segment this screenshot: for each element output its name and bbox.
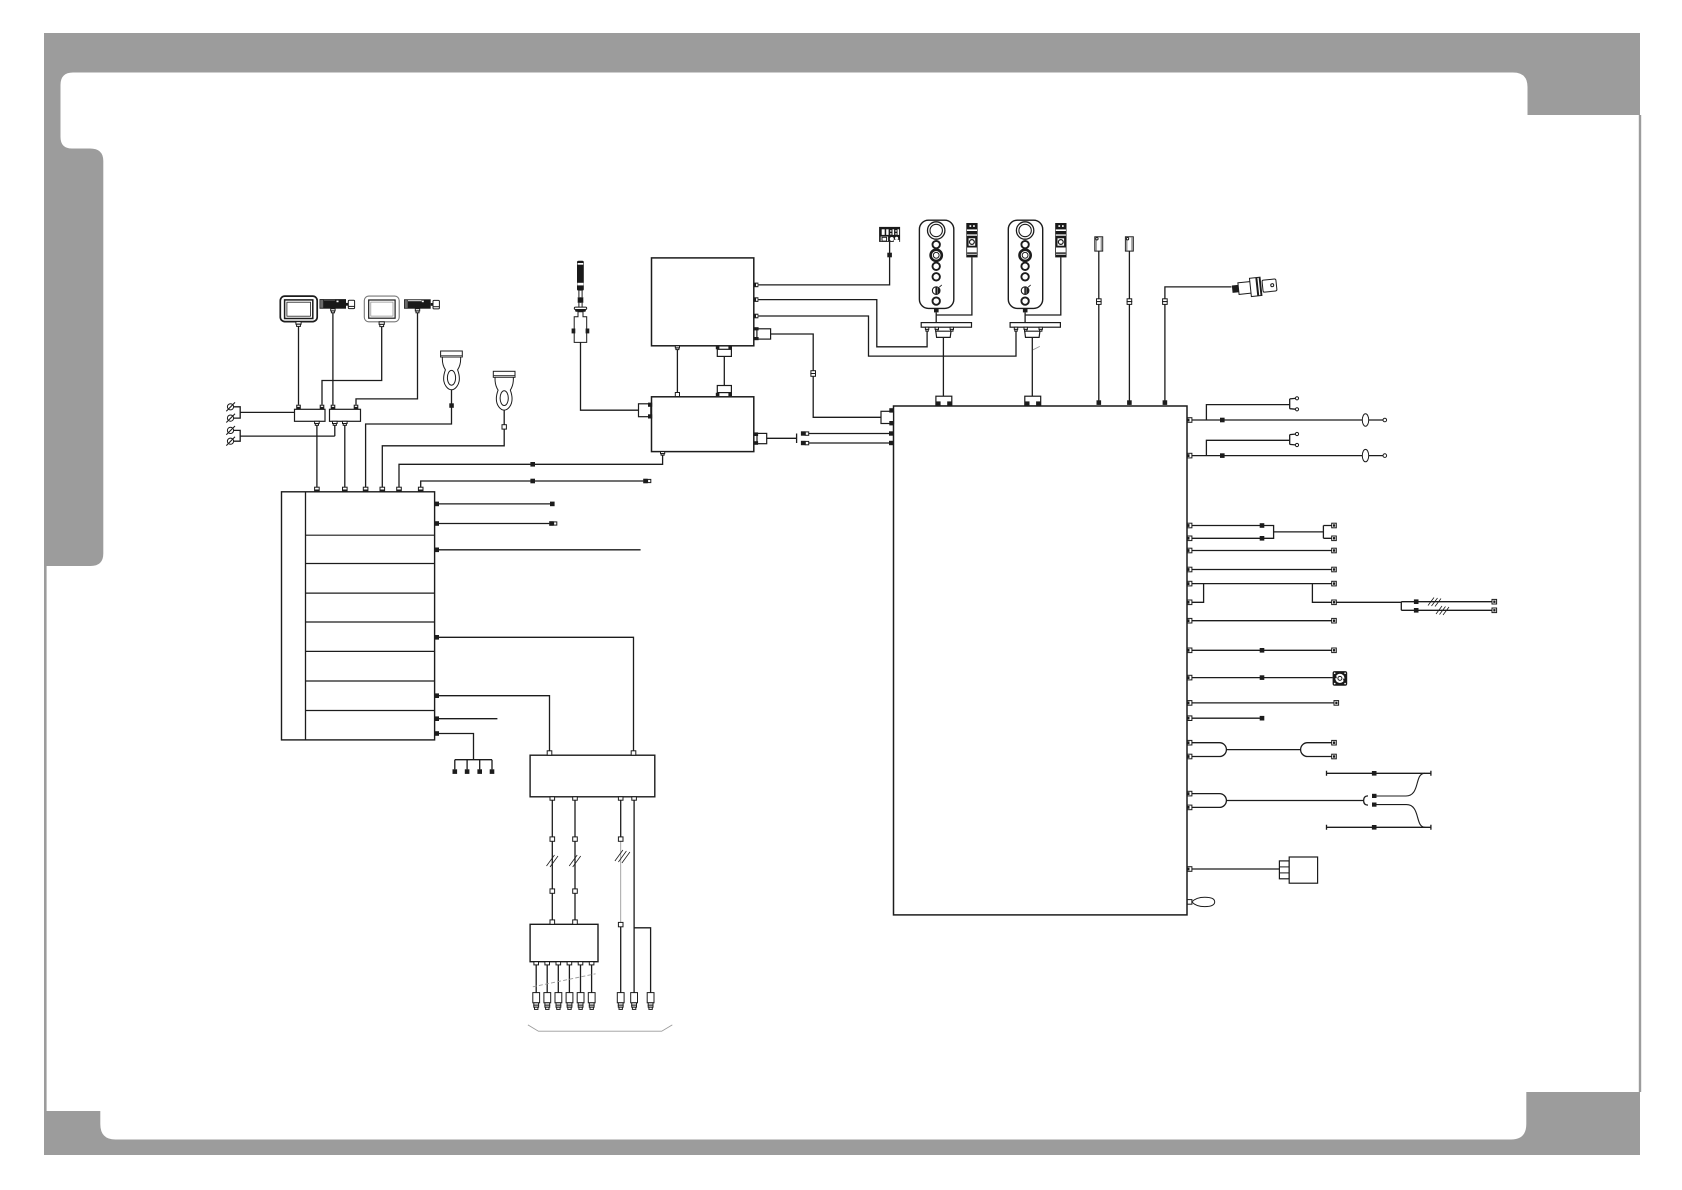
AMP right pin c [435, 548, 439, 553]
board top connector 2 [1025, 396, 1041, 406]
wire plate1 to board connector [942, 337, 944, 396]
connector end k1 [1332, 740, 1337, 745]
wire remote2 down [1025, 257, 1061, 315]
wire terminal pair 2 to P2 box stub [234, 425, 335, 441]
AMP right pin e [435, 693, 439, 698]
wire pin c long lead [439, 549, 641, 551]
wire box C pin2 to speaker plate 1 [758, 300, 927, 347]
wire i [1192, 702, 1334, 704]
RCA plug 1 [533, 993, 540, 1010]
RCA plug 3 [555, 993, 562, 1010]
RCA plug 5 [577, 993, 584, 1010]
AMP block (left tall board) [282, 492, 435, 740]
remote sensor unit 2 [1055, 223, 1066, 257]
box A top stub 1 [547, 751, 552, 755]
speaker wire lower bar [1327, 825, 1431, 830]
board right pin fan [1187, 675, 1192, 680]
microphone 1 [441, 351, 463, 390]
wire box A lead 2 [574, 800, 576, 920]
box C bottom connector [716, 346, 732, 356]
RCA plug 7 [617, 993, 624, 1010]
box A top stub 2 [631, 751, 636, 755]
wire pair c merged and split [1192, 526, 1332, 539]
wire antenna to tuner box left connector [581, 342, 639, 410]
wire twisted pair to rear terminal [1336, 602, 1492, 611]
wire AM lead with ferrite bead [1192, 455, 1383, 457]
antenna terminal A3 [226, 426, 235, 435]
wire box C pin3 to speaker plate 2 [758, 316, 1016, 356]
wire terminal pair 1 to P1 box [234, 407, 295, 418]
board right pin h [1187, 648, 1192, 653]
wire e [1192, 569, 1332, 571]
capsule cable k [1192, 743, 1334, 757]
wire pin g to 4-pin fanout [439, 734, 492, 770]
wire P1 to AMP block [316, 425, 318, 487]
box B top stub 2 [573, 920, 578, 924]
main board left connector [881, 408, 894, 425]
FM branch to 2-prong terminal [1206, 398, 1295, 420]
main board left pin upper [889, 431, 894, 435]
AMP top pin 2 [343, 487, 348, 492]
deck box A [530, 755, 655, 797]
main box C [652, 258, 754, 346]
cable mark [811, 371, 816, 377]
speaker wire upper curve [1377, 773, 1426, 796]
switch component (black) [879, 227, 900, 242]
wires box B to plugs [536, 965, 591, 993]
sensor bar 1 (black) [320, 299, 355, 313]
RCA plug 9 [647, 993, 654, 1010]
box B bottom stubs [534, 962, 594, 965]
speaker column unit 2 [1008, 220, 1042, 312]
FM rod antenna [572, 261, 590, 343]
box C right pin 1 [754, 283, 759, 288]
wire f pair [1192, 584, 1332, 603]
wire mic2 to AMP block [382, 410, 504, 487]
deck box B [530, 924, 598, 961]
antenna terminal A1 [226, 402, 235, 411]
wire pin b [439, 523, 549, 525]
cooling fan [1333, 671, 1348, 686]
plug component 2 [1125, 237, 1133, 251]
connector box P1 [295, 405, 326, 426]
wire pin f short lead [439, 718, 497, 720]
board right pin i [1187, 701, 1192, 706]
AMP right pin f [435, 716, 439, 721]
AMP top pin 1 [315, 487, 320, 492]
junction on wire [530, 479, 535, 484]
wire pin d to deck box A [439, 637, 634, 751]
wire remote1 down [936, 257, 972, 315]
speaker plate 1 [921, 323, 971, 338]
wire P2 to AMP block [344, 425, 346, 487]
display unit 2 [364, 296, 399, 327]
board right pin FM antenna [1187, 418, 1192, 423]
speaker column unit 1 [919, 220, 953, 312]
box C bottom stub [675, 346, 679, 350]
wire plate2 to board connector [1031, 337, 1033, 396]
AMP top pin 4 [380, 487, 385, 492]
wire mic1 to AMP block [366, 390, 452, 488]
board right pin d [1187, 548, 1192, 553]
wire FM lead with ferrite bead [1192, 419, 1383, 421]
wire AMP pin6 long lead [421, 481, 644, 487]
board top connector 1 [936, 396, 952, 406]
wire tower1 to plate1 [935, 312, 937, 322]
display unit 1 (TV icon) [280, 296, 317, 326]
AC power plug [1231, 276, 1277, 299]
box D bottom stub [661, 452, 665, 456]
wire box A lead 4 with branch [634, 800, 651, 992]
box C right pin 2 [754, 297, 759, 302]
main board left pin lower [889, 441, 894, 445]
connector end f2 [1332, 600, 1337, 605]
connector end c1 [1332, 523, 1337, 528]
connector end c2 [1332, 536, 1337, 541]
splitter connector lower [801, 441, 809, 445]
cable hash marks [1428, 598, 1449, 616]
speaker wire lower curve [1377, 805, 1426, 828]
wire d [1192, 550, 1332, 552]
wire j short [1192, 717, 1260, 719]
board right pin n [1187, 867, 1192, 872]
speaker plate 2 [1010, 323, 1060, 338]
wire box A lead 1 [551, 800, 553, 920]
AMP top pin 5 [397, 487, 402, 492]
board right pins m capsule [1187, 791, 1192, 796]
main box D [652, 397, 754, 452]
box D left connector [639, 403, 653, 419]
wire splitter to main board pins [809, 434, 890, 444]
board right pin c2 [1187, 536, 1192, 541]
board right pin AM antenna [1187, 453, 1192, 458]
wire box A lead 3 [620, 800, 622, 841]
RCA plug 6 [588, 993, 595, 1010]
wire bar2 to P2 box [356, 313, 418, 405]
wire plugcomp2 to main board [1128, 251, 1130, 405]
capsule cable m to speaker wires [1192, 794, 1368, 808]
board right pin c1 [1187, 523, 1192, 528]
connector end k2 [1332, 754, 1337, 759]
board right pin f1 [1187, 581, 1192, 586]
box D top connector [716, 386, 732, 397]
wire plugcomp1 to main board [1098, 251, 1100, 405]
board right pins k capsule [1187, 740, 1192, 745]
wire display1 to P1 box [298, 327, 300, 405]
remote sensor unit 1 [966, 223, 977, 257]
wire connector to box D connector [723, 356, 725, 385]
terminal end f1 [1492, 599, 1497, 604]
wire box C stub to box D [676, 350, 678, 393]
wire AMP pin5 to tuner box bottom [399, 455, 663, 487]
RCA plug 2 [544, 993, 551, 1010]
RCA plug 4 [566, 993, 573, 1010]
AM branch to 2-prong terminal [1206, 434, 1295, 456]
antenna terminal A2 [226, 414, 235, 423]
wire AC plug to main board [1165, 287, 1232, 405]
antenna terminal A4 [226, 437, 235, 446]
box C right connector [754, 327, 770, 340]
board right pin f2 [1187, 600, 1192, 605]
board right pin j [1187, 716, 1192, 721]
board right pin g [1187, 618, 1192, 623]
fanout pin squares [453, 769, 495, 774]
wire h [1192, 649, 1332, 651]
box C right pin 3 [754, 314, 759, 319]
wire bar1 to P2 box [332, 313, 334, 405]
box A bottom stubs [550, 797, 636, 800]
wire n to jack block [1192, 868, 1280, 870]
wire tower2 to plate2 [1024, 312, 1026, 322]
AMP top pin 3 [363, 487, 368, 492]
bundle diagonal [533, 974, 596, 987]
jack block component [1279, 857, 1317, 883]
wire to fan [1192, 677, 1333, 679]
sensor bar 2 (black) [404, 299, 439, 313]
connector box P2 [330, 405, 361, 426]
wire g [1192, 620, 1332, 622]
wire display2 to P1 box [322, 327, 382, 405]
board right pin o balloon [1187, 900, 1192, 905]
brace under plugs [528, 1025, 672, 1031]
wire box C pin1 to switch comp [758, 242, 889, 285]
box D top stub [675, 393, 679, 397]
board right pin e [1187, 567, 1192, 572]
lead end connector [643, 479, 651, 484]
terminal end f2 [1492, 608, 1497, 613]
AMP right pin b [435, 521, 439, 526]
box B top stub 1 [550, 920, 555, 924]
AMP right pin d [435, 635, 439, 640]
box D right connector [754, 432, 767, 444]
wire box D connector to splitter [767, 434, 797, 444]
speaker wire upper bar [1327, 771, 1431, 776]
connector end f1 [1332, 581, 1337, 586]
wire pin a [439, 503, 550, 505]
splitter connector upper [801, 431, 809, 435]
AMP right pin g [435, 731, 439, 736]
main board (large block) [894, 406, 1188, 915]
junction on wire [530, 462, 535, 467]
AMP right pin a [435, 502, 439, 507]
AMP top pin 6 [418, 487, 423, 492]
plug component 1 [1095, 237, 1103, 251]
balloon stub [1192, 897, 1215, 906]
microphone 2 [493, 371, 515, 410]
wire pin e to deck box A [439, 696, 550, 751]
wire box C connector to main board left connector [771, 334, 881, 417]
RCA plug 8 [631, 993, 638, 1010]
